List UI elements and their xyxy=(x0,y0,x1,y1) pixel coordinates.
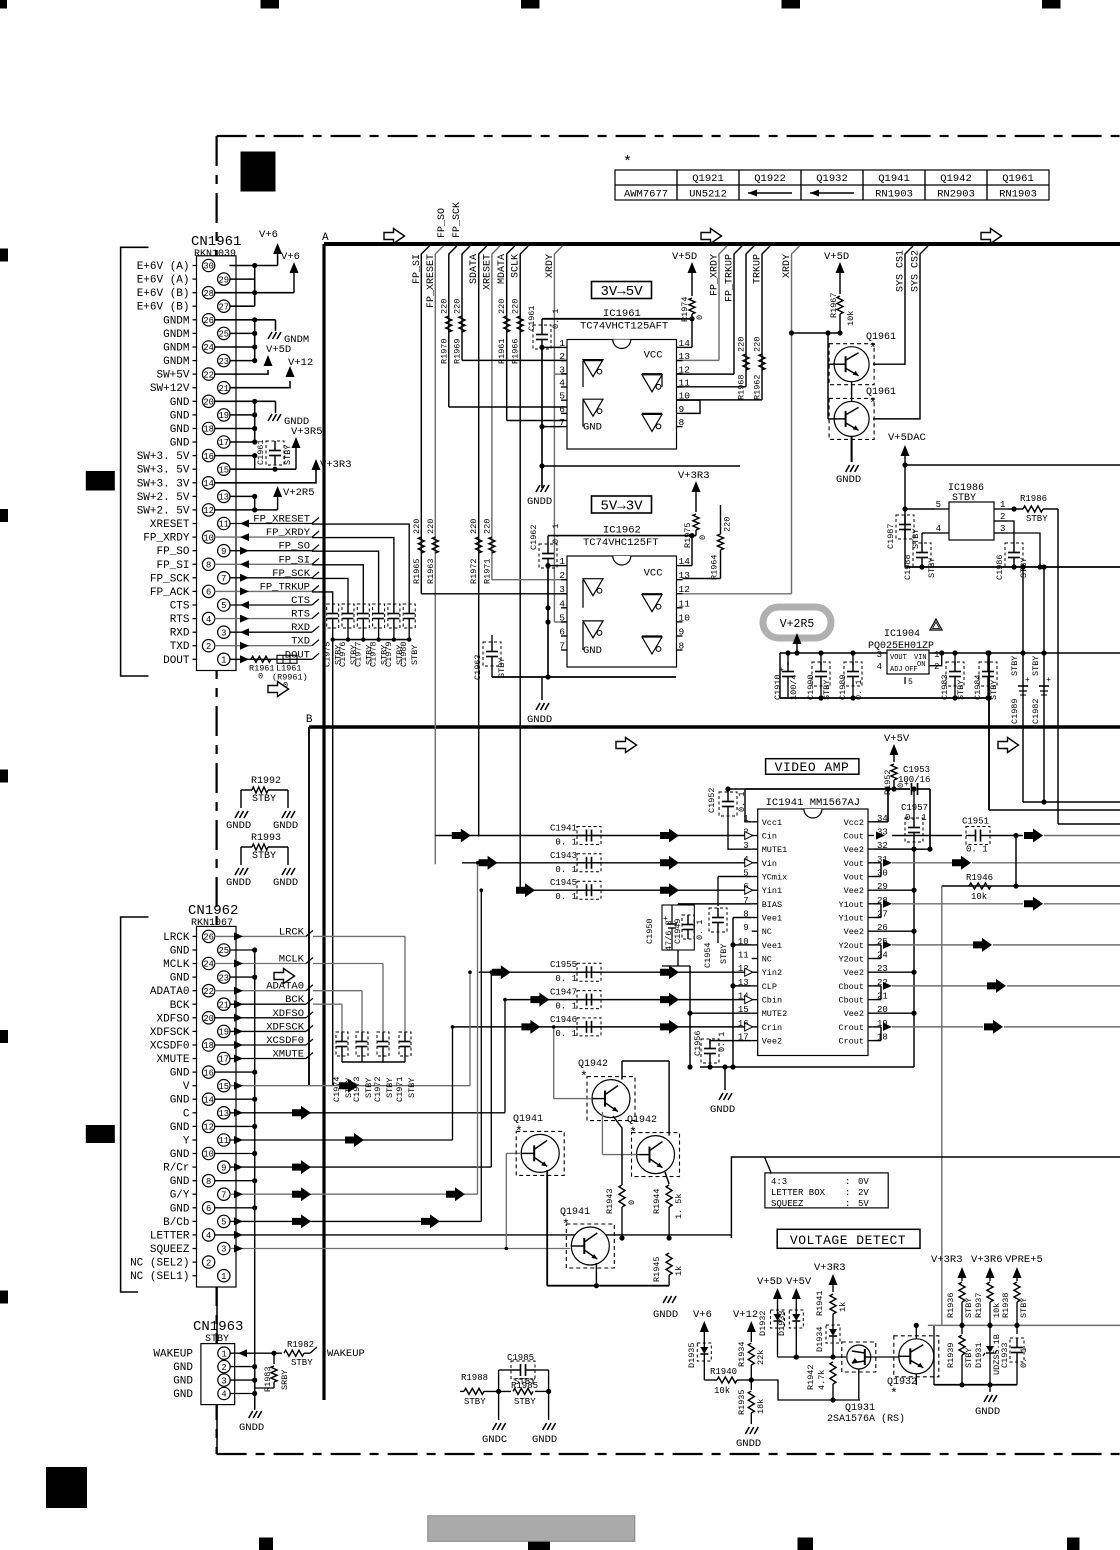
svg-text:+: + xyxy=(1025,676,1030,685)
svg-text:GNDC: GNDC xyxy=(482,1434,507,1446)
svg-text:XMUTE: XMUTE xyxy=(156,1054,189,1066)
svg-text:B/Cb: B/Cb xyxy=(163,1217,189,1229)
svg-text:10: 10 xyxy=(679,612,691,623)
svg-text:FP_SCK: FP_SCK xyxy=(150,573,190,585)
svg-text:GNDM: GNDM xyxy=(163,315,189,327)
svg-text:17: 17 xyxy=(219,438,230,448)
svg-text:C1989: C1989 xyxy=(1010,698,1020,724)
svg-text:TC74VHCT125AFT: TC74VHCT125AFT xyxy=(580,321,668,333)
svg-text:R1964: R1964 xyxy=(710,554,720,580)
svg-text:C1980: C1980 xyxy=(399,641,409,667)
svg-text:29: 29 xyxy=(219,275,230,285)
svg-text:XRDY: XRDY xyxy=(545,254,556,278)
svg-text:R1982: R1982 xyxy=(287,1340,314,1350)
svg-text:B: B xyxy=(306,714,313,726)
svg-text:23: 23 xyxy=(219,357,230,367)
svg-text:V+5D: V+5D xyxy=(824,251,849,263)
svg-text:0: 0 xyxy=(627,1200,637,1205)
svg-text::: : xyxy=(845,1177,850,1187)
svg-text:MDATA: MDATA xyxy=(497,254,508,284)
svg-text:0: 0 xyxy=(283,680,288,690)
svg-text:0. 1: 0. 1 xyxy=(1019,1348,1029,1368)
svg-text:C1982: C1982 xyxy=(1031,698,1041,724)
svg-text:22: 22 xyxy=(203,370,214,380)
svg-text:FP_SI: FP_SI xyxy=(412,254,423,284)
svg-text:FP_XRDY: FP_XRDY xyxy=(710,254,721,296)
svg-text:C1941: C1941 xyxy=(550,824,577,834)
svg-text:ON: ON xyxy=(917,661,925,669)
svg-text:13: 13 xyxy=(219,1109,230,1119)
svg-text:C1950: C1950 xyxy=(645,918,655,944)
svg-text:2: 2 xyxy=(221,1363,226,1373)
svg-text:220: 220 xyxy=(737,337,747,352)
svg-text:R1988: R1988 xyxy=(461,1373,488,1383)
svg-text:V+3R3: V+3R3 xyxy=(320,459,352,471)
svg-text:4: 4 xyxy=(206,615,211,625)
svg-text:SQUEEZ: SQUEEZ xyxy=(150,1244,190,1256)
svg-text:1: 1 xyxy=(221,1272,226,1282)
svg-text:MUTE1: MUTE1 xyxy=(762,845,788,855)
svg-text:C1955: C1955 xyxy=(550,960,577,970)
svg-text:C1976: C1976 xyxy=(338,641,348,667)
svg-text:C1963: C1963 xyxy=(473,654,483,680)
svg-text:220: 220 xyxy=(453,299,463,314)
svg-text:RN1903: RN1903 xyxy=(999,189,1037,201)
svg-text:STBY: STBY xyxy=(497,658,507,678)
svg-text:30: 30 xyxy=(203,262,214,272)
svg-text:20: 20 xyxy=(203,1014,214,1024)
svg-text:FP_SI: FP_SI xyxy=(278,554,310,566)
svg-text:10k: 10k xyxy=(846,311,856,326)
svg-text:C1951: C1951 xyxy=(962,817,989,827)
svg-text:D1932: D1932 xyxy=(758,1310,768,1336)
svg-text:C1910: C1910 xyxy=(773,674,783,700)
svg-text:R1969: R1969 xyxy=(453,338,463,364)
svg-text:Q1922: Q1922 xyxy=(754,173,786,185)
svg-text:C1933: C1933 xyxy=(1000,1342,1010,1368)
svg-text:R1967: R1967 xyxy=(829,292,839,318)
svg-text:GNDD: GNDD xyxy=(239,1422,264,1434)
svg-text:Q1941: Q1941 xyxy=(878,173,910,185)
svg-text:STBY: STBY xyxy=(252,851,276,862)
svg-text:GNDD: GNDD xyxy=(226,820,251,832)
svg-text:IC1962: IC1962 xyxy=(603,525,641,537)
svg-text:4: 4 xyxy=(559,378,565,389)
svg-text:Cbout: Cbout xyxy=(838,996,864,1006)
svg-text:R/Cr: R/Cr xyxy=(163,1163,189,1175)
svg-text:VCC: VCC xyxy=(644,349,663,361)
svg-text:GNDD: GNDD xyxy=(710,1104,735,1116)
svg-text:0: 0 xyxy=(695,315,705,320)
svg-text:3: 3 xyxy=(1000,524,1005,534)
svg-text:STBY: STBY xyxy=(1010,656,1020,676)
svg-text:FP_ACK: FP_ACK xyxy=(150,587,190,599)
svg-text:+: + xyxy=(1046,676,1051,685)
svg-text:SQUEEZ: SQUEEZ xyxy=(771,1199,804,1209)
svg-text:R1934: R1934 xyxy=(737,1341,747,1367)
svg-text:0. 1: 0. 1 xyxy=(854,680,864,700)
svg-text:GND: GND xyxy=(170,424,190,436)
svg-text:C1989: C1989 xyxy=(838,674,848,700)
svg-text:SW+2. 5V: SW+2. 5V xyxy=(137,505,190,517)
svg-text:V+3R3: V+3R3 xyxy=(931,1254,963,1266)
svg-text:9: 9 xyxy=(221,547,226,557)
svg-text:SCLK: SCLK xyxy=(511,254,522,278)
svg-text:Q1961: Q1961 xyxy=(1002,173,1034,185)
svg-text:GND: GND xyxy=(170,973,190,985)
svg-text:10k: 10k xyxy=(971,892,987,902)
svg-text:R1938: R1938 xyxy=(1001,1292,1011,1318)
svg-text:GNDD: GNDD xyxy=(975,1406,1000,1418)
svg-text:C1973: C1973 xyxy=(352,1076,362,1102)
svg-text:1: 1 xyxy=(221,1349,226,1359)
svg-text:V: V xyxy=(183,1081,190,1093)
svg-text:11: 11 xyxy=(738,951,749,961)
svg-text:XDFSCK: XDFSCK xyxy=(266,1021,305,1033)
svg-text:IC1904: IC1904 xyxy=(884,629,920,640)
svg-text:3: 3 xyxy=(221,628,226,638)
svg-text:R1972: R1972 xyxy=(469,558,479,584)
svg-text:V+2R5: V+2R5 xyxy=(780,618,815,631)
svg-text:GNDD: GNDD xyxy=(836,474,861,486)
svg-text:XDFSO: XDFSO xyxy=(272,1008,304,1020)
svg-text:25: 25 xyxy=(219,330,230,340)
svg-text:SYS CS2: SYS CS2 xyxy=(911,250,922,292)
svg-text:STBY: STBY xyxy=(514,1397,536,1407)
svg-text:R1968: R1968 xyxy=(737,374,747,400)
svg-text:Y1out: Y1out xyxy=(838,900,864,910)
svg-text:ADJ: ADJ xyxy=(890,666,903,674)
svg-text:2: 2 xyxy=(206,642,211,652)
svg-text:Vcc1: Vcc1 xyxy=(762,818,782,828)
svg-text:21: 21 xyxy=(219,1001,230,1011)
svg-text:CLP: CLP xyxy=(762,982,777,992)
svg-text:GND: GND xyxy=(583,645,602,657)
svg-text:Q1931: Q1931 xyxy=(845,1403,875,1414)
svg-text:CN1962: CN1962 xyxy=(188,903,238,919)
svg-text:C: C xyxy=(183,1108,190,1120)
svg-text:C1975: C1975 xyxy=(323,641,333,667)
svg-text:*: * xyxy=(562,1217,570,1232)
svg-text:GND: GND xyxy=(170,1203,190,1215)
svg-text:GNDM: GNDM xyxy=(163,329,189,341)
svg-text:C1977: C1977 xyxy=(353,641,363,667)
svg-text:GND: GND xyxy=(170,397,190,409)
svg-text:6: 6 xyxy=(559,404,565,415)
svg-text:Vee2: Vee2 xyxy=(762,1037,782,1047)
svg-text:CTS: CTS xyxy=(291,595,310,607)
svg-text:5: 5 xyxy=(221,1218,226,1228)
svg-text:V+3R3: V+3R3 xyxy=(814,1262,846,1274)
svg-text:220: 220 xyxy=(439,299,449,314)
svg-text:V+6: V+6 xyxy=(281,251,300,263)
svg-text:GND: GND xyxy=(170,1095,190,1107)
svg-text:NC: NC xyxy=(762,955,772,965)
svg-text:0: 0 xyxy=(258,671,263,681)
svg-text:C1952: C1952 xyxy=(707,787,717,813)
svg-text:CN1961: CN1961 xyxy=(191,234,241,250)
svg-text:R1992: R1992 xyxy=(251,776,281,787)
svg-text:23: 23 xyxy=(219,973,230,983)
svg-text:Crin: Crin xyxy=(762,1023,782,1033)
svg-text:220: 220 xyxy=(723,517,733,532)
svg-text:C1946: C1946 xyxy=(550,1015,577,1025)
svg-text:Crout: Crout xyxy=(838,1037,864,1047)
svg-text:GND: GND xyxy=(170,1068,190,1080)
svg-text:STBY: STBY xyxy=(1031,656,1041,676)
svg-text:R1946: R1946 xyxy=(966,873,993,883)
svg-text:STBY: STBY xyxy=(283,445,293,465)
svg-text:Vee2: Vee2 xyxy=(844,886,864,896)
svg-text:19: 19 xyxy=(219,411,230,421)
svg-text:1: 1 xyxy=(1000,500,1005,510)
svg-text:14: 14 xyxy=(203,479,214,489)
svg-text:22k: 22k xyxy=(756,1350,766,1365)
svg-text:MUTE2: MUTE2 xyxy=(762,1009,788,1019)
svg-text:STBY: STBY xyxy=(410,645,420,665)
svg-text:6: 6 xyxy=(206,1204,211,1214)
svg-text:4: 4 xyxy=(936,524,941,534)
svg-text:220: 220 xyxy=(753,337,763,352)
svg-text:+: + xyxy=(904,780,909,789)
svg-text:C1987: C1987 xyxy=(886,523,896,549)
svg-text:5V→3V: 5V→3V xyxy=(600,499,643,515)
svg-text:A: A xyxy=(322,232,329,244)
svg-text:25: 25 xyxy=(219,946,230,956)
svg-text:Vcc2: Vcc2 xyxy=(844,818,864,828)
svg-text:C1990: C1990 xyxy=(806,674,816,700)
svg-text:FP_SI: FP_SI xyxy=(156,560,189,572)
svg-text:CTS: CTS xyxy=(170,601,190,613)
svg-text:GNDM: GNDM xyxy=(163,343,189,355)
svg-text:10: 10 xyxy=(203,533,214,543)
svg-text:RXD: RXD xyxy=(170,628,190,640)
svg-text:SW+12V: SW+12V xyxy=(150,383,190,395)
svg-text:100/16: 100/16 xyxy=(898,775,930,785)
svg-text:100/4: 100/4 xyxy=(789,674,799,700)
svg-text:C1956: C1956 xyxy=(693,1030,703,1056)
svg-text:*: * xyxy=(890,1386,898,1401)
svg-text:GND: GND xyxy=(170,1176,190,1188)
svg-text:SW+3. 5V: SW+3. 5V xyxy=(137,465,190,477)
svg-text:0. 1: 0. 1 xyxy=(695,920,705,940)
svg-text:V+5V: V+5V xyxy=(786,1276,812,1288)
svg-text:220: 220 xyxy=(426,519,436,534)
svg-text:GNDD: GNDD xyxy=(527,496,552,508)
svg-text:RTS: RTS xyxy=(291,609,310,621)
svg-text:VOUT: VOUT xyxy=(890,654,907,662)
svg-text:5: 5 xyxy=(559,391,565,402)
svg-text:C1943: C1943 xyxy=(550,851,577,861)
svg-text:GND: GND xyxy=(170,946,190,958)
svg-text:0V: 0V xyxy=(858,1177,869,1187)
svg-text:R1939: R1939 xyxy=(946,1342,956,1368)
svg-text:24: 24 xyxy=(203,960,214,970)
svg-text:28: 28 xyxy=(203,289,214,299)
svg-text:XCSDF0: XCSDF0 xyxy=(266,1035,304,1047)
svg-text:V+5D: V+5D xyxy=(757,1276,782,1288)
svg-text:20: 20 xyxy=(203,398,214,408)
svg-text:TXD: TXD xyxy=(170,641,190,653)
svg-text:C1972: C1972 xyxy=(373,1076,383,1102)
svg-text:Cout: Cout xyxy=(844,832,864,842)
svg-text:4: 4 xyxy=(206,1231,211,1241)
svg-text:V+6: V+6 xyxy=(693,1309,712,1321)
svg-text:SW+3. 5V: SW+3. 5V xyxy=(137,451,190,463)
svg-text:FP_SO: FP_SO xyxy=(156,546,189,558)
svg-text:NC: NC xyxy=(762,927,772,937)
svg-text:12: 12 xyxy=(203,1123,214,1133)
svg-text:R1965: R1965 xyxy=(412,558,422,584)
svg-text:7: 7 xyxy=(559,641,565,652)
svg-text:13: 13 xyxy=(679,351,691,362)
svg-text:XCSDF0: XCSDF0 xyxy=(150,1041,190,1053)
svg-text:7: 7 xyxy=(221,1190,226,1200)
svg-text:STBY: STBY xyxy=(911,529,921,549)
svg-text:1k: 1k xyxy=(674,1266,684,1276)
svg-text:0: 0 xyxy=(698,535,708,540)
svg-text:0. 1: 0. 1 xyxy=(555,1029,577,1039)
svg-text:R1945: R1945 xyxy=(652,1256,662,1282)
svg-text:220: 220 xyxy=(511,299,521,314)
svg-text:C1979: C1979 xyxy=(384,641,394,667)
svg-text:Y1out: Y1out xyxy=(838,914,864,924)
svg-text:GNDD: GNDD xyxy=(653,1309,678,1321)
svg-text:XDFSO: XDFSO xyxy=(156,1013,189,1025)
svg-text:GNDM: GNDM xyxy=(163,356,189,368)
svg-text:VCC: VCC xyxy=(644,568,663,580)
svg-text:0. 1: 0. 1 xyxy=(555,838,577,848)
svg-text:R1942: R1942 xyxy=(806,1364,816,1390)
svg-text:0. 1: 0. 1 xyxy=(551,524,561,544)
svg-text:D1934: D1934 xyxy=(815,1326,825,1352)
svg-text:GND: GND xyxy=(170,1149,190,1161)
svg-text:Vout: Vout xyxy=(844,859,864,869)
svg-text:3: 3 xyxy=(221,1245,226,1255)
svg-text:WAKEUP: WAKEUP xyxy=(153,1349,193,1361)
svg-text:220: 220 xyxy=(482,519,492,534)
svg-text:12: 12 xyxy=(679,364,691,375)
svg-text:16: 16 xyxy=(203,452,214,462)
svg-text:Q1932: Q1932 xyxy=(816,173,848,185)
svg-text:*: * xyxy=(623,154,632,171)
svg-text:14: 14 xyxy=(203,1095,214,1105)
svg-text:4: 4 xyxy=(221,1390,226,1400)
svg-text:R1940: R1940 xyxy=(710,1367,737,1377)
svg-text:Yin2: Yin2 xyxy=(762,968,782,978)
svg-text:R1970: R1970 xyxy=(439,338,449,364)
svg-text:Vee2: Vee2 xyxy=(844,968,864,978)
svg-text:17: 17 xyxy=(219,1055,230,1065)
svg-text::: : xyxy=(845,1199,850,1209)
svg-text:GND: GND xyxy=(170,438,190,450)
svg-text:D1933: D1933 xyxy=(777,1310,787,1336)
svg-text:4: 4 xyxy=(559,598,565,609)
svg-text:220: 220 xyxy=(412,519,422,534)
svg-text:1: 1 xyxy=(221,656,226,666)
svg-text:8: 8 xyxy=(679,641,685,652)
svg-text:Vee2: Vee2 xyxy=(844,1009,864,1019)
svg-text:*: * xyxy=(869,396,877,411)
svg-text:E+6V (B): E+6V (B) xyxy=(137,302,190,314)
svg-text:19: 19 xyxy=(219,1028,230,1038)
svg-text:+: + xyxy=(779,666,784,675)
svg-text:24: 24 xyxy=(203,343,214,353)
svg-text:16: 16 xyxy=(203,1068,214,1078)
svg-text:0. 1: 0. 1 xyxy=(737,792,747,812)
svg-text:C1984: C1984 xyxy=(973,674,983,700)
svg-text:MM1567AJ: MM1567AJ xyxy=(810,797,860,809)
svg-text:R1936: R1936 xyxy=(946,1292,956,1318)
svg-text:V+3R3: V+3R3 xyxy=(678,470,710,482)
svg-text:9: 9 xyxy=(221,1163,226,1173)
svg-text:R1993: R1993 xyxy=(251,833,281,844)
svg-text:9: 9 xyxy=(743,923,748,933)
svg-text:RTS: RTS xyxy=(170,614,190,626)
svg-text:GNDD: GNDD xyxy=(226,877,251,889)
svg-text:STBY: STBY xyxy=(1026,514,1048,524)
svg-text:GND: GND xyxy=(170,1122,190,1134)
svg-text:SW+2. 5V: SW+2. 5V xyxy=(137,492,190,504)
svg-text:*: * xyxy=(515,1124,523,1139)
svg-text:V+2R5: V+2R5 xyxy=(283,487,315,499)
svg-text:TRKUP: TRKUP xyxy=(753,254,764,284)
svg-text:18: 18 xyxy=(203,1041,214,1051)
svg-text:GND: GND xyxy=(173,1376,193,1388)
svg-text:OFF: OFF xyxy=(905,666,918,674)
svg-text:18: 18 xyxy=(203,425,214,435)
svg-text:Vin: Vin xyxy=(762,859,777,869)
svg-text:1k: 1k xyxy=(838,1302,848,1312)
svg-text:Vee2: Vee2 xyxy=(844,927,864,937)
svg-text:13: 13 xyxy=(679,570,691,581)
svg-text:BCK: BCK xyxy=(170,1000,190,1012)
svg-text:V+5D: V+5D xyxy=(672,251,697,263)
svg-text:6: 6 xyxy=(559,627,565,638)
svg-text:RN1903: RN1903 xyxy=(875,189,913,201)
svg-text:G/Y: G/Y xyxy=(170,1190,190,1202)
svg-text:V+6: V+6 xyxy=(259,229,278,241)
svg-text:GNDD: GNDD xyxy=(736,1438,761,1450)
svg-text:(R9961): (R9961) xyxy=(272,672,308,682)
svg-text:6: 6 xyxy=(206,588,211,598)
svg-text:C1978: C1978 xyxy=(369,641,379,667)
svg-text:R1935: R1935 xyxy=(737,1389,747,1415)
svg-text:2: 2 xyxy=(1000,512,1005,522)
svg-text:3: 3 xyxy=(877,650,882,660)
svg-text:SYS CS1: SYS CS1 xyxy=(896,250,907,292)
svg-text:FP_SCK: FP_SCK xyxy=(452,202,463,238)
svg-text:XDFSCK: XDFSCK xyxy=(150,1027,190,1039)
svg-text:GNDD: GNDD xyxy=(532,1434,557,1446)
svg-text:0. 1: 0. 1 xyxy=(555,1002,577,1012)
svg-text:22: 22 xyxy=(203,987,214,997)
svg-text:27: 27 xyxy=(219,302,230,312)
svg-text:GNDD: GNDD xyxy=(273,820,298,832)
svg-text:D1931: D1931 xyxy=(974,1342,984,1368)
svg-text:R1963: R1963 xyxy=(426,558,436,584)
svg-text:BIAS: BIAS xyxy=(762,900,782,910)
svg-text:FP_SO: FP_SO xyxy=(437,208,448,238)
svg-text:Y: Y xyxy=(183,1136,190,1148)
svg-text:13: 13 xyxy=(219,493,230,503)
svg-text:3: 3 xyxy=(221,1376,226,1386)
svg-text:26: 26 xyxy=(203,316,214,326)
svg-text:SW+3. 3V: SW+3. 3V xyxy=(137,478,190,490)
svg-text:XRESET: XRESET xyxy=(150,519,190,531)
svg-text:VIDEO AMP: VIDEO AMP xyxy=(775,760,850,775)
svg-text:FP_XRDY: FP_XRDY xyxy=(143,533,190,545)
